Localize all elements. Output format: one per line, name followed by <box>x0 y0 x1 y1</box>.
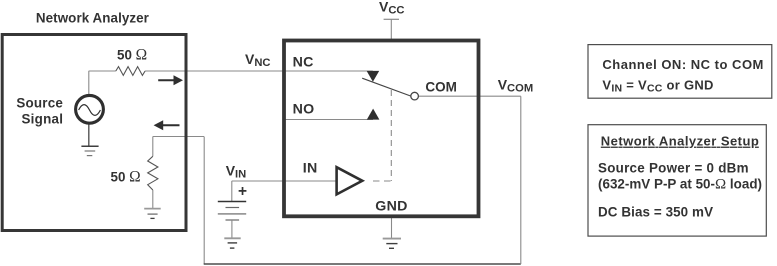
dashed control vertical <box>390 90 392 181</box>
wire: COM out <box>419 95 521 97</box>
svg-text:Network Analyzer Setup: Network Analyzer Setup <box>601 134 759 149</box>
dashed control horizontal <box>373 180 391 182</box>
buffer driver U2 <box>337 167 363 194</box>
ground (source) <box>81 146 98 155</box>
info box 2 text <box>598 134 762 220</box>
svg-text:DC Bias = 350 mV: DC Bias = 350 mV <box>598 205 713 220</box>
resistor R1 50ohm <box>116 67 145 76</box>
COM pole circle <box>411 92 419 100</box>
wire: VCC to box <box>390 19 392 40</box>
switch blade <box>362 78 410 96</box>
svg-text:Source Power = 0 dBm: Source Power = 0 dBm <box>598 161 749 176</box>
wire: R2 node to corner <box>153 136 204 138</box>
wire: R1 to NC contact <box>145 70 373 72</box>
wire: VIN to IN pin <box>232 180 338 182</box>
svg-text:NC: NC <box>293 55 314 71</box>
wire: source lower lead <box>88 122 90 146</box>
svg-text:Channel ON: NC to COM: Channel ON: NC to COM <box>602 57 763 72</box>
svg-text:Source: Source <box>16 95 63 110</box>
info box 1 text <box>602 57 763 95</box>
network analyzer box <box>2 35 186 231</box>
info box 2 <box>588 125 766 236</box>
svg-text:50 Ω: 50 Ω <box>117 47 147 64</box>
svg-text:NO: NO <box>293 102 315 118</box>
wire: left return vertical <box>203 137 205 265</box>
resistor R2 50ohm <box>148 137 158 209</box>
battery VIN <box>218 202 246 239</box>
wire: right return vertical <box>520 96 522 264</box>
info box 1 <box>588 45 772 99</box>
NO contact triangle <box>367 109 380 120</box>
svg-text:(632-mV P-P at 50-Ω load): (632-mV P-P at 50-Ω load) <box>598 177 762 193</box>
svg-text:COM: COM <box>425 79 457 94</box>
switch box U1 <box>284 41 479 217</box>
svg-text:+: + <box>238 183 247 200</box>
svg-text:Network Analyzer: Network Analyzer <box>36 11 150 26</box>
ground (R2) <box>144 209 161 219</box>
wire: source to R1 <box>89 70 116 72</box>
AC source V1 <box>76 95 104 123</box>
NC contact triangle <box>367 71 380 82</box>
arrow: return direction left <box>154 120 180 130</box>
wire: battery top lead <box>231 181 233 201</box>
wire: source upper lead <box>88 71 90 96</box>
wire: bottom return <box>204 263 521 265</box>
svg-text:GND: GND <box>375 199 407 215</box>
wire: VCC T-bar <box>384 18 399 20</box>
svg-text:Signal: Signal <box>21 111 62 126</box>
wire: NO pin <box>284 119 373 121</box>
svg-text:50 Ω: 50 Ω <box>111 169 141 186</box>
svg-text:IN: IN <box>303 160 318 176</box>
ground (GND pin) <box>383 239 401 249</box>
ground (battery) <box>224 238 240 248</box>
wire: GND down <box>391 216 393 238</box>
arrow: signal direction right <box>158 75 183 85</box>
source signal label <box>16 95 63 126</box>
